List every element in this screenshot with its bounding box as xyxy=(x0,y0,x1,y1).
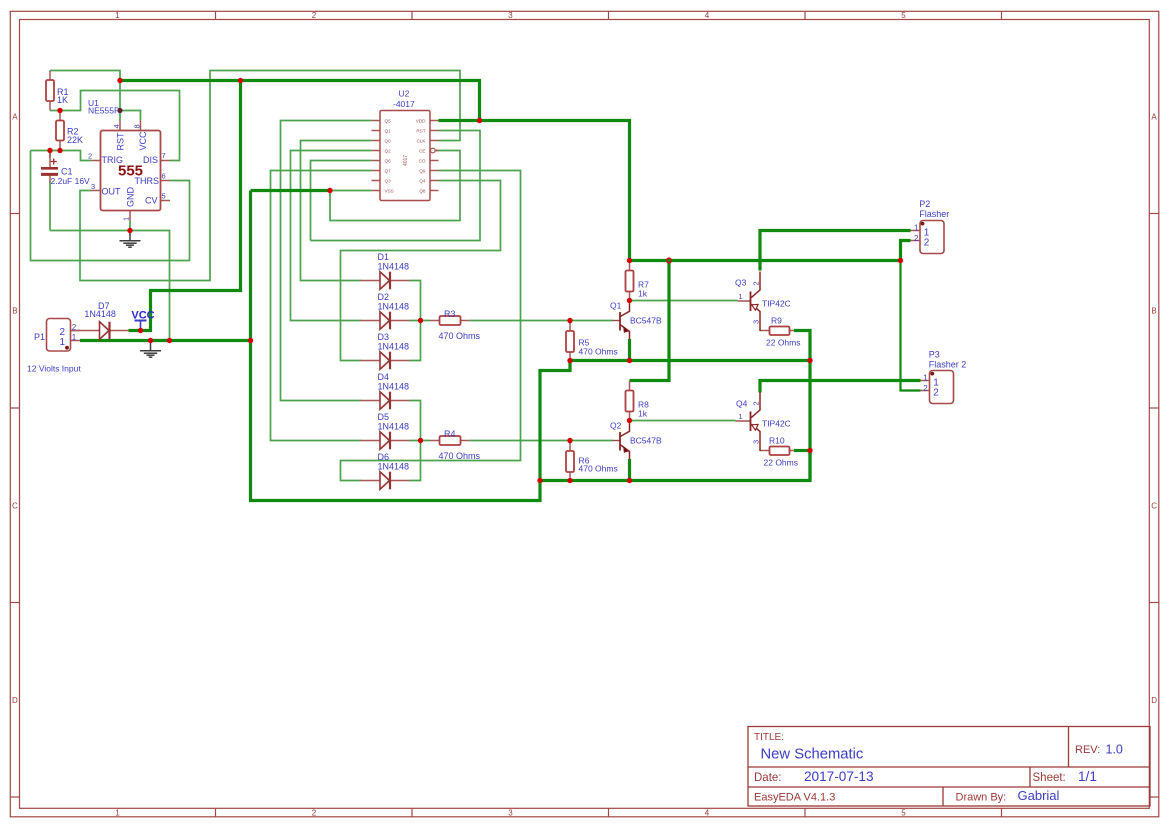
wire R1 top to 555 RST/VCC column xyxy=(50,71,120,121)
wire R10 link xyxy=(794,449,810,452)
diode D7 xyxy=(70,301,129,339)
svg-text:THRS: THRS xyxy=(135,176,160,186)
junction D1-D3 cathodes xyxy=(418,318,423,323)
resistor R7 xyxy=(626,261,650,301)
wire R3 to Q1 base xyxy=(470,320,614,322)
svg-text:1N4148: 1N4148 xyxy=(378,262,410,272)
svg-text:1N4148: 1N4148 xyxy=(84,309,116,319)
svg-text:1: 1 xyxy=(115,808,120,817)
junction Q2 collector xyxy=(627,418,632,423)
dark junction at RST/VCC pins xyxy=(117,108,122,113)
svg-text:1K: 1K xyxy=(57,95,68,105)
wire VCC to pin8 xyxy=(120,111,141,121)
svg-text:D5: D5 xyxy=(378,412,390,422)
diode D6 xyxy=(361,452,410,489)
svg-text:1: 1 xyxy=(60,337,66,348)
wire P2 pin2 net to P3 pin2 xyxy=(901,261,921,391)
svg-text:A: A xyxy=(12,113,18,122)
wire D7 cathode riser to VCC rail xyxy=(129,81,241,331)
svg-text:C1: C1 xyxy=(61,167,73,177)
wire emitter rail lower xyxy=(540,451,810,481)
wire D3 cathode loop xyxy=(410,321,421,361)
svg-text:22 Ohms: 22 Ohms xyxy=(766,338,801,348)
wire P3 pin1 to Q4 collector xyxy=(760,381,921,393)
junction C1 loop on P1 rail xyxy=(167,338,172,343)
svg-text:2: 2 xyxy=(752,401,761,405)
connector P3 xyxy=(921,350,967,404)
svg-text:2: 2 xyxy=(72,323,77,332)
svg-text:3: 3 xyxy=(752,320,761,324)
wire U2 Q2 to D2 anode xyxy=(291,151,372,321)
junction Q1 emitter rail xyxy=(627,358,632,363)
svg-text:4: 4 xyxy=(112,124,121,128)
svg-text:1: 1 xyxy=(914,223,919,232)
connector P2 xyxy=(911,199,950,253)
svg-text:Drawn By:: Drawn By: xyxy=(956,792,1007,804)
svg-text:1/1: 1/1 xyxy=(1078,769,1097,784)
resistor R2 xyxy=(56,111,83,151)
resistor R4 xyxy=(430,429,481,461)
wire R1 bottom to DIS (pin7) xyxy=(50,91,180,161)
resistor R5 xyxy=(566,321,618,361)
resistor R10 xyxy=(760,436,798,468)
wire Q2 collector to Q4 base xyxy=(630,420,736,422)
svg-text:CLK: CLK xyxy=(417,138,427,143)
svg-text:D: D xyxy=(1151,696,1157,705)
svg-text:Q2: Q2 xyxy=(610,421,622,431)
wire C1 top lead xyxy=(49,151,51,159)
wire ground trunk vertical xyxy=(251,191,571,501)
svg-text:Gabrial: Gabrial xyxy=(1018,788,1060,803)
svg-text:NE555P: NE555P xyxy=(88,106,120,116)
svg-text:D6: D6 xyxy=(378,452,390,462)
junction Q1 collector xyxy=(627,298,632,303)
junction U2 VSS xyxy=(327,188,332,193)
capacitor C1 xyxy=(41,151,90,187)
IC U2 4017 xyxy=(372,89,439,201)
svg-text:Q7: Q7 xyxy=(385,168,392,173)
transistor Q1 BC547B xyxy=(610,301,662,340)
transistor Q3 TIP42C xyxy=(735,272,791,332)
wire U2 Q4 to D3 anode xyxy=(341,181,501,361)
svg-text:1k: 1k xyxy=(638,409,648,419)
svg-text:-4017: -4017 xyxy=(393,99,415,109)
svg-text:Sheet:: Sheet: xyxy=(1033,772,1066,784)
svg-text:2: 2 xyxy=(312,11,317,20)
ground symbol at P1 rail xyxy=(140,341,161,357)
junction P1 rail at trunk xyxy=(248,338,253,343)
svg-text:5: 5 xyxy=(901,11,906,20)
junction R10 column xyxy=(807,448,812,453)
wire D6 cathode loop xyxy=(410,441,421,481)
svg-text:Flasher: Flasher xyxy=(919,209,949,219)
transistor Q4 TIP42C xyxy=(736,392,791,451)
wire TRIG node to THRS (pin6) loop xyxy=(31,151,190,261)
svg-text:VSS: VSS xyxy=(385,188,394,193)
svg-text:TRIG: TRIG xyxy=(102,155,124,165)
svg-text:1k: 1k xyxy=(638,289,648,299)
wire D2 cathode to R3 xyxy=(410,320,431,322)
svg-text:2: 2 xyxy=(923,384,928,393)
svg-text:TIP42C: TIP42C xyxy=(762,419,791,429)
svg-text:P2: P2 xyxy=(919,199,930,209)
wire U2 Q7 to D5 anode xyxy=(271,171,372,441)
power flag VCC xyxy=(131,310,154,331)
svg-text:Q0: Q0 xyxy=(385,138,392,143)
svg-text:Q3: Q3 xyxy=(735,278,747,288)
svg-text:3: 3 xyxy=(752,440,761,444)
resistor R3 xyxy=(430,309,481,341)
wire VSS spur xyxy=(251,189,331,192)
svg-text:D4: D4 xyxy=(378,372,390,382)
svg-text:REV:: REV: xyxy=(1075,744,1100,756)
svg-text:C: C xyxy=(1151,502,1157,511)
svg-text:1: 1 xyxy=(923,373,928,382)
svg-text:D: D xyxy=(12,696,18,705)
wire U2 CE to VSS junction loop xyxy=(330,151,460,221)
wire Q1 emitter drop xyxy=(628,339,631,361)
junction R1 bottom / R2 top xyxy=(57,108,62,113)
junction trunk lower rail xyxy=(537,478,542,483)
svg-text:Q1: Q1 xyxy=(385,128,392,133)
svg-text:B: B xyxy=(12,307,17,316)
svg-text:Q5: Q5 xyxy=(385,118,392,123)
wire GND net under 555 xyxy=(50,231,170,341)
transistor Q2 BC547B xyxy=(610,421,662,460)
svg-text:1.0: 1.0 xyxy=(1106,743,1123,757)
svg-text:4: 4 xyxy=(705,808,710,817)
svg-text:A: A xyxy=(1151,113,1157,122)
wire R8 riser xyxy=(630,261,670,381)
resistor R8 xyxy=(626,381,650,421)
junction ring R8 riser xyxy=(667,258,672,263)
svg-text:2.2uF 16V: 2.2uF 16V xyxy=(51,176,91,186)
wire U2 RST to Q6 loop xyxy=(311,131,481,241)
wire R7 node to P2 pin2 column xyxy=(630,259,901,262)
svg-text:1: 1 xyxy=(122,217,131,221)
svg-text:22K: 22K xyxy=(67,135,83,145)
diode D3 xyxy=(361,332,410,369)
resistor R6 xyxy=(566,441,618,481)
wire emitter rail upper xyxy=(570,359,810,362)
svg-text:TITLE:: TITLE: xyxy=(754,732,784,743)
svg-text:2: 2 xyxy=(312,808,317,817)
svg-text:1N4148: 1N4148 xyxy=(378,342,410,352)
junction R9 column rail xyxy=(807,358,812,363)
junction R6 bottom rail xyxy=(567,478,572,483)
junction R5 bottom rail xyxy=(567,358,572,363)
junction 555 GND xyxy=(127,228,132,233)
junction at U2 VDD xyxy=(477,118,482,123)
svg-text:RST: RST xyxy=(416,128,425,133)
svg-text:5: 5 xyxy=(162,192,166,201)
svg-text:2: 2 xyxy=(933,387,939,398)
svg-text:4017: 4017 xyxy=(403,155,409,166)
wire U2 Q0 to D1 anode xyxy=(301,141,372,281)
svg-text:12 Violts Input: 12 Violts Input xyxy=(27,364,81,374)
svg-text:B: B xyxy=(1151,307,1156,316)
svg-text:2: 2 xyxy=(752,281,761,285)
svg-text:Flasher 2: Flasher 2 xyxy=(929,359,967,369)
diode D2 xyxy=(361,292,410,329)
wire Q1 collector to Q3 base xyxy=(630,300,738,302)
junction D4-D6 cathodes xyxy=(418,438,423,443)
resistor R9 xyxy=(760,316,801,348)
svg-text:EasyEDA V4.1.3: EasyEDA V4.1.3 xyxy=(754,792,835,804)
svg-text:5: 5 xyxy=(901,808,906,817)
wire D5 cathode to R4 xyxy=(410,440,431,442)
ground symbol at 555 pin1 xyxy=(120,231,141,247)
svg-text:D3: D3 xyxy=(378,332,390,342)
svg-text:3: 3 xyxy=(508,11,513,20)
svg-text:3: 3 xyxy=(508,808,513,817)
svg-text:3: 3 xyxy=(91,182,95,191)
wire TRIG node: R2 bottom / C1 top to TRIG pin2 xyxy=(31,151,92,161)
svg-text:R10: R10 xyxy=(769,436,785,446)
svg-text:P1: P1 xyxy=(34,332,45,342)
svg-text:Q3: Q3 xyxy=(385,178,392,183)
junction P2 pin2 column xyxy=(898,258,903,263)
svg-text:BC547B: BC547B xyxy=(630,436,662,446)
WIRES-THICK xyxy=(80,81,921,501)
pin CE inversion bubble xyxy=(431,148,436,153)
svg-text:BC547B: BC547B xyxy=(630,316,662,326)
svg-text:470 Ohms: 470 Ohms xyxy=(439,331,481,341)
svg-text:1: 1 xyxy=(115,11,120,20)
svg-text:Q2: Q2 xyxy=(385,148,392,153)
svg-text:2017-07-13: 2017-07-13 xyxy=(804,769,874,784)
op-amp U1 555 timer xyxy=(88,98,170,221)
svg-text:CO: CO xyxy=(419,158,426,163)
svg-text:Q4: Q4 xyxy=(736,399,748,409)
svg-text:1N4148: 1N4148 xyxy=(378,382,410,392)
junction R7 top xyxy=(627,258,632,263)
junction R5 top xyxy=(567,318,572,323)
svg-text:Q6: Q6 xyxy=(385,158,392,163)
svg-text:7: 7 xyxy=(162,151,166,160)
svg-text:C: C xyxy=(12,502,18,511)
svg-text:1N4148: 1N4148 xyxy=(378,302,410,312)
junction on VCC rail at riser xyxy=(238,78,243,83)
svg-text:CE: CE xyxy=(419,148,425,153)
junction ground symbol on P1 rail xyxy=(148,338,153,343)
svg-text:OUT: OUT xyxy=(102,187,122,197)
wire U2 VSS to junction xyxy=(330,190,372,192)
wire R9 to R10 column xyxy=(794,331,810,481)
junction R2 bottom xyxy=(57,148,62,153)
svg-text:2: 2 xyxy=(88,152,92,161)
svg-text:D2: D2 xyxy=(378,292,390,302)
junction C1 top xyxy=(47,148,52,153)
junction on VCC rail at 555 column xyxy=(117,78,122,83)
connector P1 xyxy=(27,319,81,374)
svg-text:VDD: VDD xyxy=(416,118,426,123)
svg-text:TIP42C: TIP42C xyxy=(762,299,791,309)
wire U2 Q6 to RST loop xyxy=(311,161,372,241)
svg-text:R4: R4 xyxy=(444,429,456,439)
wire D1 cathode loop xyxy=(410,281,421,321)
svg-text:4: 4 xyxy=(705,11,710,20)
wire U2 Q5 to D4 anode xyxy=(281,121,372,401)
diode D5 xyxy=(361,412,410,449)
svg-text:1: 1 xyxy=(739,412,743,421)
svg-text:Date:: Date: xyxy=(754,772,782,784)
svg-text:VCC: VCC xyxy=(131,310,154,322)
svg-text:2: 2 xyxy=(914,234,919,243)
diode D1 xyxy=(361,252,410,289)
svg-text:8: 8 xyxy=(133,124,142,128)
wire P2 pin1 to Q3 collector xyxy=(760,231,911,271)
svg-text:1: 1 xyxy=(72,333,77,342)
wire Q2 emitter drop xyxy=(628,459,631,481)
svg-text:1: 1 xyxy=(739,292,743,301)
svg-text:1N4148: 1N4148 xyxy=(378,462,410,472)
resistor R1 xyxy=(46,71,69,111)
wire OUT (pin3) to U2 CLK xyxy=(80,71,460,281)
junction VCC flag xyxy=(138,328,143,333)
svg-text:Q8: Q8 xyxy=(419,188,426,193)
wire 555 GND pin drop xyxy=(129,221,131,231)
svg-text:New Schematic: New Schematic xyxy=(761,747,864,763)
svg-text:470 Ohms: 470 Ohms xyxy=(579,464,618,474)
svg-text:Q4: Q4 xyxy=(419,178,426,183)
svg-text:R3: R3 xyxy=(444,309,456,319)
svg-text:GND: GND xyxy=(126,187,136,208)
WIRES-THIN xyxy=(31,71,738,481)
svg-text:2: 2 xyxy=(924,237,930,248)
wire R4 to Q2 base xyxy=(470,440,614,442)
junction R6 top xyxy=(567,438,572,443)
wire P1 ground rail xyxy=(80,339,251,342)
svg-text:1N4148: 1N4148 xyxy=(378,422,410,432)
wire C1 bottom to GND net xyxy=(49,181,51,231)
svg-text:Q9: Q9 xyxy=(419,168,426,173)
svg-text:470 Ohms: 470 Ohms xyxy=(439,451,481,461)
wire P2 pin2 down xyxy=(901,241,911,261)
svg-text:RST: RST xyxy=(116,132,126,151)
TITLE BLOCK xyxy=(748,727,1150,807)
wire VCC rail from 555 to U2 VDD xyxy=(120,81,480,121)
svg-text:470 Ohms: 470 Ohms xyxy=(579,347,618,357)
svg-text:CV: CV xyxy=(145,196,158,206)
wire D4 cathode loop xyxy=(410,401,421,441)
junction Q2 emitter rail xyxy=(627,478,632,483)
diode D4 xyxy=(361,372,410,409)
svg-text:VCC: VCC xyxy=(138,131,148,151)
svg-text:R9: R9 xyxy=(771,316,782,326)
svg-text:D1: D1 xyxy=(378,252,390,262)
svg-text:6: 6 xyxy=(162,172,166,181)
svg-text:22 Ohms: 22 Ohms xyxy=(764,458,799,468)
svg-text:P3: P3 xyxy=(929,350,940,360)
wire U2 VDD row to R7 column xyxy=(439,121,630,261)
wire U2 Q9 to D6 anode xyxy=(341,171,521,481)
svg-text:DIS: DIS xyxy=(143,155,158,165)
svg-text:Q1: Q1 xyxy=(610,301,622,311)
svg-text:U2: U2 xyxy=(399,89,410,99)
